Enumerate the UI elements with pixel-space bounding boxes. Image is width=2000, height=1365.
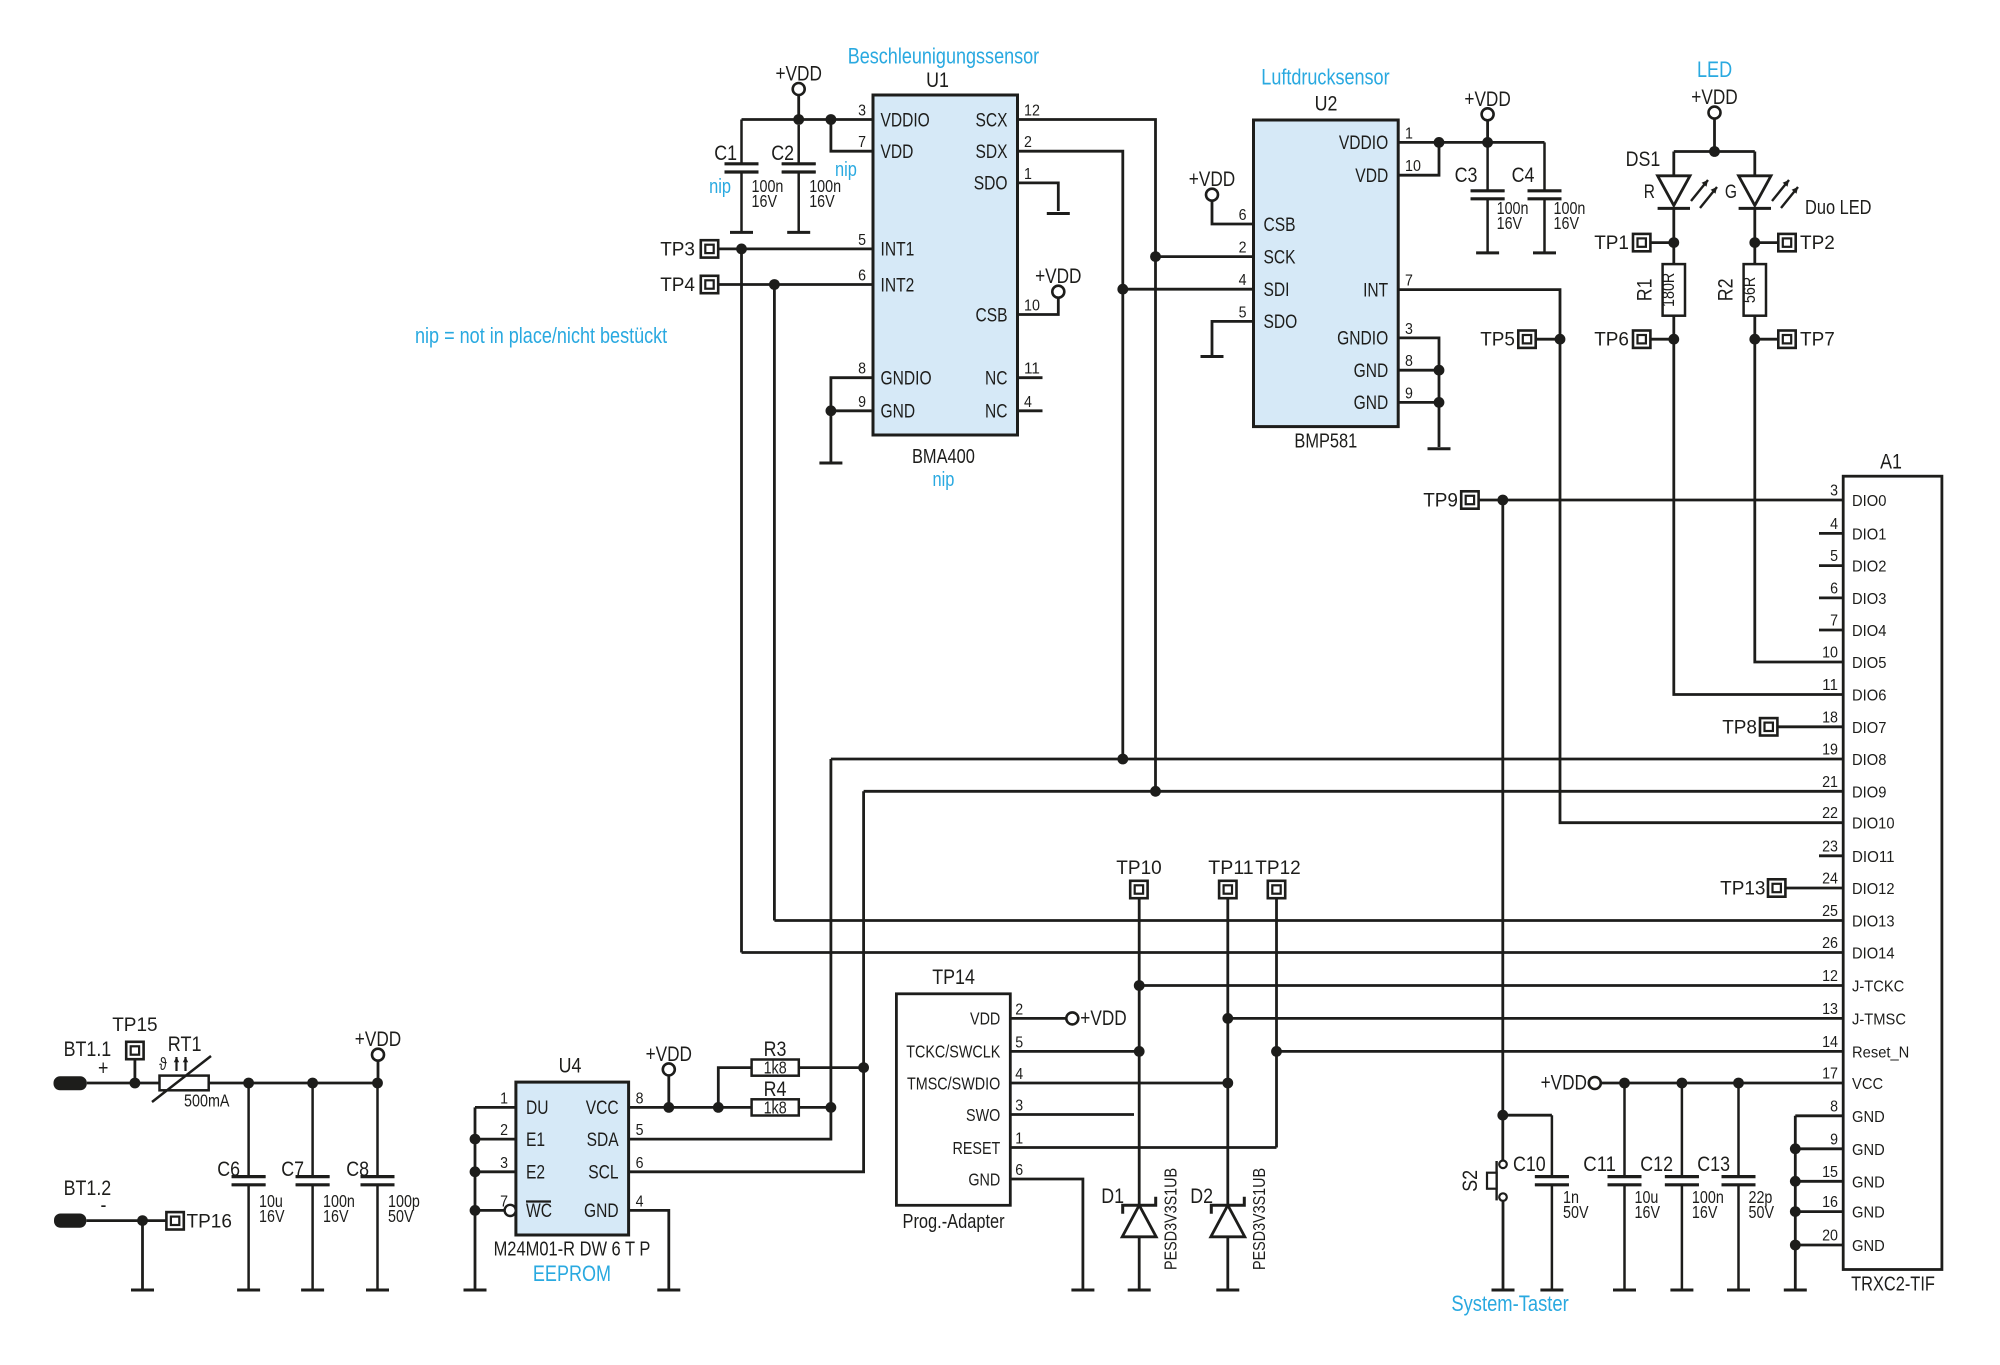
svg-text:M24M01-R DW 6 T P: M24M01-R DW 6 T P: [494, 1239, 651, 1261]
A1 pin names: [1852, 493, 1909, 1255]
svg-text:RESET: RESET: [953, 1138, 1001, 1158]
wire U4 VCC row: [629, 1106, 752, 1109]
svg-text:U2: U2: [1315, 93, 1338, 116]
test point TP6: [1594, 330, 1650, 351]
push button S2: [1487, 1161, 1507, 1201]
wire INT1 net down to DIO14 row: [740, 249, 743, 953]
node VDDIO junction 1: [1434, 137, 1445, 148]
svg-text:GND: GND: [881, 402, 916, 423]
wire SDA net row to A1 DIO8: [831, 758, 1843, 761]
svg-text:TP1: TP1: [1594, 233, 1629, 254]
svg-text:180R: 180R: [1658, 273, 1678, 307]
wire TP14 RESET to TP12 net: [1010, 1146, 1276, 1149]
svg-text:16V: 16V: [323, 1206, 349, 1226]
C11 value 10u 16V: [1635, 1187, 1661, 1222]
test point TP10: [1116, 858, 1161, 898]
svg-text:E2: E2: [526, 1163, 545, 1184]
svg-text:GND: GND: [584, 1201, 619, 1222]
wire TP10 down through D1: [1138, 898, 1141, 1288]
wire BT1.2 to TP16: [86, 1219, 166, 1222]
node junction +VDD C2: [793, 114, 804, 125]
svg-text:DIO11: DIO11: [1852, 849, 1895, 866]
wire U4 DU pin 1: [475, 1106, 516, 1109]
svg-text:TMSC/SWDIO: TMSC/SWDIO: [907, 1073, 1000, 1093]
svg-text:6: 6: [1239, 207, 1247, 224]
wire TP7 to R2 net: [1755, 338, 1779, 341]
test point TP9: [1423, 491, 1478, 512]
svg-text:VDD: VDD: [970, 1009, 1000, 1029]
svg-text:12: 12: [1024, 103, 1040, 120]
svg-text:GND: GND: [1354, 361, 1389, 382]
power +VDD at U4 VCC: [646, 1043, 692, 1076]
svg-text:DIO13: DIO13: [1852, 914, 1895, 931]
LED DS1 green half: [1739, 176, 1771, 209]
battery terminal BT1.2: [54, 1214, 86, 1228]
svg-text:DIO6: DIO6: [1852, 688, 1886, 705]
svg-text:3: 3: [1015, 1098, 1023, 1115]
svg-text:ϑ: ϑ: [159, 1054, 167, 1074]
wire U2 GNDIO pin 3 to ground bus: [1398, 338, 1439, 447]
svg-text:DIO0: DIO0: [1852, 493, 1886, 510]
svg-text:22: 22: [1822, 805, 1838, 822]
svg-text:DIO14: DIO14: [1852, 946, 1895, 963]
wire +VDD to LED rail: [1713, 119, 1716, 152]
svg-text:8: 8: [858, 361, 866, 378]
node SCL-SCX junction: [1150, 786, 1161, 797]
ground under C11: [1613, 1289, 1636, 1292]
ground under U1 SDO: [1047, 212, 1070, 215]
svg-text:Luftdrucksensor: Luftdrucksensor: [1261, 65, 1389, 90]
power +VDD at A1 VCC: [1541, 1072, 1601, 1095]
svg-text:SDO: SDO: [974, 174, 1008, 195]
svg-text:R2: R2: [1715, 278, 1738, 301]
node C7 junction: [307, 1078, 318, 1089]
svg-text:Reset_N: Reset_N: [1852, 1044, 1909, 1061]
svg-text:50V: 50V: [388, 1206, 414, 1226]
test point TP1: [1594, 233, 1650, 254]
wire SDI row to SDA net: [1123, 288, 1254, 291]
wire J-TMSC row: [1228, 1017, 1843, 1020]
svg-text:16V: 16V: [1692, 1202, 1718, 1222]
svg-text:56R: 56R: [1739, 277, 1759, 303]
svg-text:26: 26: [1822, 935, 1838, 952]
wire rail to LED R: [1672, 152, 1675, 176]
svg-text:R1: R1: [1634, 278, 1657, 301]
node J-TCKC junction: [1134, 980, 1145, 991]
svg-text:CSB: CSB: [1264, 215, 1296, 236]
svg-text:2: 2: [500, 1122, 508, 1139]
svg-text:23: 23: [1822, 838, 1838, 855]
svg-text:DIO12: DIO12: [1852, 881, 1895, 898]
svg-text:TP7: TP7: [1800, 330, 1835, 351]
node U4 WC junction: [470, 1205, 481, 1216]
IC U2 body BMP581: [1254, 120, 1399, 427]
IC U4 body M24M01: [516, 1082, 629, 1235]
wire U2 INT pin 7 to DIO10: [1398, 290, 1843, 823]
ground under D2: [1216, 1289, 1239, 1292]
ground under A1 GND bus: [1784, 1289, 1807, 1292]
wire U4 WC pin 7: [475, 1209, 505, 1212]
wire TP6 to R1 net: [1650, 338, 1673, 341]
svg-text:+VDD: +VDD: [1691, 86, 1737, 109]
svg-text:G: G: [1725, 182, 1737, 203]
wire down to S2: [1501, 1115, 1504, 1160]
test point TP16: [166, 1212, 232, 1233]
node junction VDD branch: [826, 114, 837, 125]
LED G arrows: [1772, 180, 1789, 201]
test point TP13: [1720, 879, 1785, 900]
test point TP11: [1208, 858, 1253, 898]
svg-text:4: 4: [1015, 1066, 1023, 1083]
svg-text:16V: 16V: [809, 191, 835, 211]
ground under U4 GND: [657, 1289, 680, 1292]
RT1 thermal symbol: [159, 1054, 188, 1074]
svg-text:C4: C4: [1512, 164, 1535, 187]
node U4 E1 junction: [470, 1134, 481, 1145]
test point TP5: [1480, 330, 1536, 351]
svg-text:5: 5: [858, 232, 866, 249]
svg-text:INT: INT: [1363, 280, 1388, 301]
node VDDIO junction C3: [1482, 137, 1493, 148]
wire TP3 to U1 INT1 pin 5: [718, 247, 873, 250]
wire VCC row: [1601, 1082, 1843, 1085]
svg-text:4: 4: [636, 1193, 644, 1210]
svg-text:6: 6: [858, 268, 866, 285]
node TP16 junction: [137, 1215, 148, 1226]
svg-text:TP10: TP10: [1116, 858, 1161, 879]
C3 value 100n 16V: [1497, 198, 1529, 233]
wire U2 VDD pin 10 link: [1398, 142, 1439, 175]
wire U4 E1 pin 2: [475, 1138, 516, 1141]
node TP1 junction: [1668, 237, 1679, 248]
capacitor C1 (nip): [725, 120, 759, 233]
svg-text:DU: DU: [526, 1098, 549, 1119]
node J-TMSC junction: [1222, 1013, 1233, 1024]
svg-text:9: 9: [1405, 385, 1413, 402]
test point TP8: [1722, 717, 1777, 738]
capacitor C3: [1471, 142, 1505, 253]
svg-text:C11: C11: [1583, 1153, 1616, 1176]
node SDI junction: [1117, 284, 1128, 295]
svg-text:A1: A1: [1880, 451, 1902, 474]
svg-text:5: 5: [1239, 304, 1247, 321]
svg-text:6: 6: [636, 1155, 644, 1172]
wire TP2 to R2 net: [1755, 241, 1779, 244]
A1 pin numbers: [1822, 483, 1838, 1245]
svg-text:TCKC/SWCLK: TCKC/SWCLK: [906, 1042, 1000, 1062]
diode D2 PESD3V3S1UB: [1211, 1197, 1245, 1237]
svg-text:GND: GND: [1852, 1205, 1885, 1222]
power +VDD above LEDs: [1691, 86, 1737, 119]
svg-text:DIO4: DIO4: [1852, 623, 1886, 640]
wire U4 E2 pin 3: [475, 1170, 516, 1173]
wire RT1 to +VDD node: [209, 1082, 378, 1085]
U1 pin numbers right: [1024, 103, 1040, 411]
svg-text:DIO7: DIO7: [1852, 720, 1886, 737]
svg-text:U1: U1: [926, 69, 949, 92]
U1 NC pin 4 stub: [1018, 409, 1043, 412]
svg-text:D1: D1: [1101, 1185, 1124, 1208]
svg-text:25: 25: [1822, 903, 1838, 920]
svg-text:6: 6: [1015, 1162, 1023, 1179]
svg-text:DIO3: DIO3: [1852, 591, 1886, 608]
capacitor C2 (nip): [782, 125, 816, 232]
capacitor C4: [1528, 142, 1562, 253]
wire +VDD down to rail: [1486, 120, 1489, 142]
wire A1 GND pin 8 stub: [1795, 1114, 1843, 1117]
svg-text:TP6: TP6: [1594, 330, 1629, 351]
svg-text:C10: C10: [1513, 1153, 1546, 1176]
svg-text:LED: LED: [1697, 57, 1732, 82]
ground under C12: [1670, 1289, 1693, 1292]
wire TP14 TMSC/SWDIO to D2 net: [1010, 1082, 1228, 1085]
svg-text:1: 1: [1024, 166, 1032, 183]
U1 NC pin 11 stub: [1018, 376, 1043, 379]
node R3 SCL junction: [858, 1062, 869, 1073]
node TP15 junction: [130, 1078, 141, 1089]
node GND9 junction: [1790, 1143, 1801, 1154]
wire R4 to SDA net: [799, 1106, 831, 1109]
svg-text:2: 2: [1024, 134, 1032, 151]
svg-text:C3: C3: [1455, 164, 1478, 187]
node TP9 junction: [1497, 495, 1508, 506]
svg-text:U4: U4: [559, 1055, 582, 1078]
svg-text:VDD: VDD: [1355, 166, 1388, 187]
svg-text:3: 3: [1830, 483, 1838, 500]
svg-text:D2: D2: [1190, 1185, 1213, 1208]
svg-text:TP14: TP14: [932, 966, 975, 989]
ground under C10: [1540, 1289, 1563, 1292]
svg-text:SDX: SDX: [976, 142, 1008, 163]
svg-text:C12: C12: [1640, 1153, 1673, 1176]
test point TP4: [660, 275, 718, 296]
A1 unconnected pin stubs: [1819, 533, 1843, 855]
node TCKC junction on D1 net: [1134, 1046, 1145, 1057]
ground under C13: [1727, 1289, 1750, 1292]
wire U1 SDO pin 1 to ground: [1018, 183, 1059, 211]
wire U4 SCL to DIO9 riser: [629, 791, 864, 1172]
U2 pin numbers left: [1239, 207, 1247, 321]
svg-text:C8: C8: [346, 1158, 369, 1181]
svg-text:INT1: INT1: [881, 240, 915, 261]
wire to U1 VDD pin 7: [831, 120, 873, 152]
ground under C7: [301, 1289, 324, 1292]
power +VDD above C3: [1464, 88, 1510, 121]
wire TP5 to INT net: [1536, 338, 1560, 341]
svg-text:Beschleunigungssensor: Beschleunigungssensor: [848, 44, 1039, 69]
wire TP14 GND to ground: [1010, 1179, 1083, 1289]
svg-text:GND: GND: [1852, 1174, 1885, 1191]
power +VDD at U1 CSB: [1035, 265, 1081, 298]
svg-text:TP16: TP16: [187, 1212, 232, 1233]
wire U2 GND pin 8: [1398, 369, 1439, 372]
svg-text:17: 17: [1822, 1066, 1838, 1083]
node VCC junction C11: [1619, 1078, 1630, 1089]
capacitor C11: [1608, 1083, 1642, 1289]
svg-text:16: 16: [1822, 1194, 1838, 1211]
svg-text:11: 11: [1024, 361, 1040, 378]
wire R2 to DIO5: [1755, 316, 1843, 662]
node TP3 net to DIO13: [736, 244, 747, 255]
svg-text:C2: C2: [771, 142, 794, 165]
svg-text:+VDD: +VDD: [1035, 265, 1081, 288]
svg-text:Prog.-Adapter: Prog.-Adapter: [903, 1211, 1005, 1233]
node Reset_N junction: [1271, 1046, 1282, 1057]
node U2 GND9 junction: [1434, 397, 1445, 408]
node TP2 junction: [1749, 237, 1760, 248]
svg-text:GND: GND: [1852, 1142, 1885, 1159]
U2 pin names left: [1264, 215, 1298, 333]
svg-text:1k8: 1k8: [764, 1097, 787, 1117]
svg-text:SDI: SDI: [1264, 280, 1290, 301]
U4 pin numbers right: [636, 1090, 644, 1210]
wire LED R cathode down: [1672, 208, 1675, 264]
wire U1 SDX pin 2 down to SDA net: [1018, 151, 1123, 759]
svg-text:2: 2: [1239, 240, 1247, 257]
svg-text:TP9: TP9: [1423, 491, 1458, 512]
svg-text:TRXC2-TIF: TRXC2-TIF: [1851, 1274, 1935, 1296]
module A1 body TRXC2-TIF: [1843, 476, 1942, 1269]
svg-text:1k8: 1k8: [764, 1058, 787, 1078]
svg-text:16V: 16V: [752, 191, 778, 211]
node LED rail junction: [1709, 146, 1720, 157]
wire U2 VDDIO pin 1 to supply rail: [1398, 141, 1544, 144]
IC U1 body BMA400: [873, 95, 1018, 435]
test point TP15: [112, 1015, 157, 1059]
power +VDD symbol above U1: [776, 63, 822, 96]
wire +VDD down to VCC row: [667, 1075, 670, 1107]
LED DS1 red half: [1658, 176, 1690, 209]
svg-text:VCC: VCC: [1852, 1076, 1883, 1093]
ground under U2 SDO: [1201, 355, 1224, 358]
svg-text:12: 12: [1822, 968, 1838, 985]
wire TP9 to A1 DIO0: [1479, 499, 1844, 502]
ground under C2: [787, 231, 810, 234]
svg-text:5: 5: [1015, 1034, 1023, 1051]
svg-text:GND: GND: [1852, 1109, 1885, 1126]
wire SCK row to SCL net: [1156, 255, 1254, 258]
svg-text:VCC: VCC: [586, 1098, 619, 1119]
svg-text:SDO: SDO: [1264, 312, 1298, 333]
wire A1 GND pin 9 stub: [1795, 1147, 1843, 1150]
svg-text:TP12: TP12: [1255, 858, 1300, 879]
svg-text:3: 3: [858, 103, 866, 120]
node U2 GND8 junction: [1434, 365, 1445, 376]
wire A1 GND pin 16 stub: [1795, 1210, 1843, 1213]
wire U4 GND to ground: [629, 1210, 669, 1288]
svg-text:C1: C1: [714, 142, 737, 165]
U4 left bus wire: [474, 1107, 477, 1288]
wire A1 GND pin 15 stub: [1795, 1180, 1843, 1183]
svg-text:16V: 16V: [259, 1206, 285, 1226]
svg-text:DIO5: DIO5: [1852, 655, 1886, 672]
svg-text:GNDIO: GNDIO: [881, 369, 932, 390]
svg-text:DIO8: DIO8: [1852, 752, 1886, 769]
svg-text:DIO2: DIO2: [1852, 559, 1886, 576]
node SDA-SDX junction: [1117, 754, 1128, 765]
svg-text:TP2: TP2: [1800, 233, 1835, 254]
node GND16 junction: [1790, 1206, 1801, 1217]
TP14 pin numbers: [1015, 1001, 1023, 1179]
wire TP12 down to RESET corner: [1275, 898, 1278, 1147]
C13 value 22p 50V: [1749, 1187, 1775, 1222]
TP14 SWO stub: [1010, 1113, 1134, 1116]
ground under C1: [730, 231, 753, 234]
svg-text:SDA: SDA: [587, 1130, 619, 1151]
svg-text:500mA: 500mA: [184, 1091, 230, 1111]
ground under BT1.2: [131, 1289, 154, 1292]
wire TP4 to U1 INT2 pin 6: [718, 283, 873, 286]
test point TP12: [1255, 858, 1300, 898]
svg-text:+VDD: +VDD: [355, 1028, 401, 1051]
wire U1 GND pin 9: [831, 409, 873, 412]
ground under S2: [1492, 1289, 1515, 1292]
svg-text:NC: NC: [985, 369, 1008, 390]
test point TP3: [660, 240, 718, 261]
svg-text:7: 7: [858, 134, 866, 151]
svg-text:BMA400: BMA400: [912, 446, 975, 468]
node VCC +VDD junction: [663, 1102, 674, 1113]
svg-text:16V: 16V: [1635, 1202, 1661, 1222]
svg-text:PESD3V3S1UB: PESD3V3S1UB: [1161, 1168, 1181, 1270]
svg-text:16V: 16V: [1497, 213, 1523, 233]
node TP7 junction: [1749, 334, 1760, 345]
wire A1 GND bus: [1794, 1116, 1797, 1289]
test point TP7: [1778, 330, 1835, 351]
C12 value 100n 16V: [1692, 1187, 1724, 1222]
wire U2 GND pin 9: [1398, 401, 1439, 404]
capacitor C8: [361, 1083, 395, 1289]
wire BT1.1 to RT1: [87, 1082, 160, 1085]
resistor R3: [752, 1060, 799, 1076]
node R3 branch junction: [713, 1102, 724, 1113]
resistor R4: [752, 1099, 799, 1115]
svg-text:SCK: SCK: [1264, 247, 1296, 268]
wire U1 SCX pin 12 down to SCL net: [1018, 120, 1156, 792]
svg-text:C13: C13: [1697, 1153, 1730, 1176]
capacitor C10: [1535, 1115, 1569, 1288]
svg-text:GND: GND: [1852, 1238, 1885, 1255]
U4 pin names right: [584, 1098, 619, 1222]
wire U1 GNDIO pin 8 to ground bus: [831, 378, 873, 463]
wire TP16 net to ground: [141, 1221, 144, 1289]
C2 value 100n 16V: [809, 176, 841, 211]
node S2 junction: [1497, 1110, 1508, 1121]
battery terminal BT1.1: [54, 1076, 87, 1090]
svg-text:1: 1: [500, 1090, 508, 1107]
svg-text:SCL: SCL: [588, 1163, 618, 1184]
svg-text:1: 1: [1015, 1131, 1023, 1148]
ground under U4 bus: [464, 1289, 487, 1292]
svg-text:6: 6: [1830, 580, 1838, 597]
node R4 SDA junction: [826, 1102, 837, 1113]
wire TP15 down: [133, 1059, 136, 1083]
C8 value 100p 50V: [388, 1191, 420, 1226]
svg-text:EEPROM: EEPROM: [533, 1261, 611, 1286]
svg-text:10: 10: [1822, 645, 1838, 662]
wire A1 GND pin 20 stub: [1795, 1244, 1843, 1247]
svg-text:19: 19: [1822, 742, 1838, 759]
svg-text:INT2: INT2: [881, 275, 915, 296]
fuse RT1 500mA: [152, 1056, 211, 1102]
U2 pin numbers right: [1405, 125, 1421, 402]
svg-text:GND: GND: [1354, 393, 1389, 414]
U1 pin names left: [881, 110, 932, 422]
svg-text:C6: C6: [217, 1158, 240, 1181]
ground under U2: [1428, 447, 1451, 450]
power +VDD at TP14 VDD: [1066, 1007, 1126, 1030]
svg-text:24: 24: [1822, 871, 1838, 888]
